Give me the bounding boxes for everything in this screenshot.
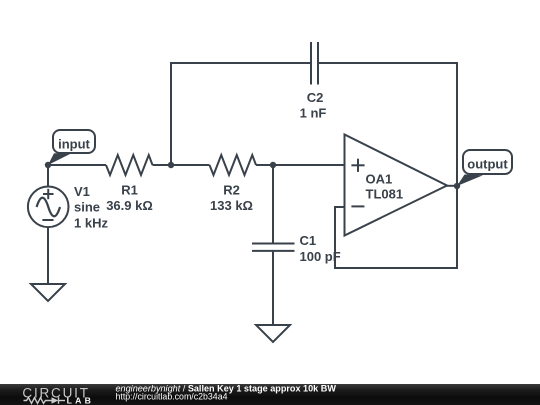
svg-text:R1: R1 bbox=[121, 182, 138, 197]
wire: node C to op-amp + input bbox=[273, 164, 345, 166]
capacitor C1 bbox=[252, 244, 295, 251]
wire: V1 to ground bbox=[47, 227, 49, 284]
logo resistor-diode squiggle bbox=[24, 397, 66, 404]
op-amp - input symbol bbox=[351, 205, 364, 207]
svg-text:C1: C1 bbox=[300, 233, 317, 248]
junction node output bbox=[454, 183, 460, 189]
resistor R2 bbox=[210, 155, 257, 175]
svg-text:100 pF: 100 pF bbox=[300, 249, 341, 264]
svg-text:TL081: TL081 bbox=[366, 186, 404, 201]
resistor R1 bbox=[106, 155, 153, 175]
V1 sine symbol bbox=[37, 198, 60, 217]
svg-text:1 nF: 1 nF bbox=[300, 106, 327, 121]
op-amp OA1 triangle bbox=[345, 135, 448, 236]
wire: C1 to ground bbox=[272, 251, 274, 325]
junction node C (R2/C1/op-amp) bbox=[270, 162, 276, 168]
junction node A (input) bbox=[45, 162, 51, 168]
flag: output bbox=[457, 150, 512, 186]
svg-text:OA1: OA1 bbox=[366, 171, 393, 186]
wire: C2 right plate along right rail down and back to op-amp - input bbox=[319, 63, 457, 268]
wire: node C down to C1 bbox=[272, 165, 274, 243]
ground symbol below V1 bbox=[31, 284, 65, 301]
V1 plus polarity mark bbox=[43, 189, 54, 199]
wire: input node to R1 left lead bbox=[48, 164, 106, 166]
svg-text:http://circuitlab.com/c2b34a4: http://circuitlab.com/c2b34a4 bbox=[116, 391, 228, 401]
svg-text:36.9 kΩ: 36.9 kΩ bbox=[106, 198, 153, 213]
svg-text:1 kHz: 1 kHz bbox=[74, 215, 108, 230]
flag: input bbox=[48, 130, 95, 165]
svg-text:LAB: LAB bbox=[67, 396, 94, 405]
wire: R1 to node B bbox=[153, 164, 210, 166]
ground symbol below C1 bbox=[256, 325, 290, 342]
capacitor C2 bbox=[311, 42, 318, 85]
op-amp + input symbol bbox=[351, 159, 364, 172]
V1 minus polarity mark bbox=[42, 219, 53, 221]
svg-text:V1: V1 bbox=[74, 184, 90, 199]
voltage source V1 circle bbox=[28, 187, 69, 228]
wire: R2 to node C bbox=[256, 164, 273, 166]
wire: op-amp output stub bbox=[445, 185, 457, 187]
wire: input node down to V1 bbox=[47, 165, 49, 187]
svg-text:sine: sine bbox=[74, 200, 100, 215]
svg-text:input: input bbox=[58, 137, 90, 152]
junction node B (R1/R2/C2) bbox=[168, 162, 174, 168]
footer bar bbox=[0, 384, 540, 405]
svg-text:133 kΩ: 133 kΩ bbox=[210, 198, 253, 213]
svg-text:C2: C2 bbox=[307, 90, 324, 105]
svg-text:output: output bbox=[467, 157, 508, 172]
wire: node B up and right to C2 left plate bbox=[171, 63, 310, 165]
svg-text:R2: R2 bbox=[223, 182, 240, 197]
